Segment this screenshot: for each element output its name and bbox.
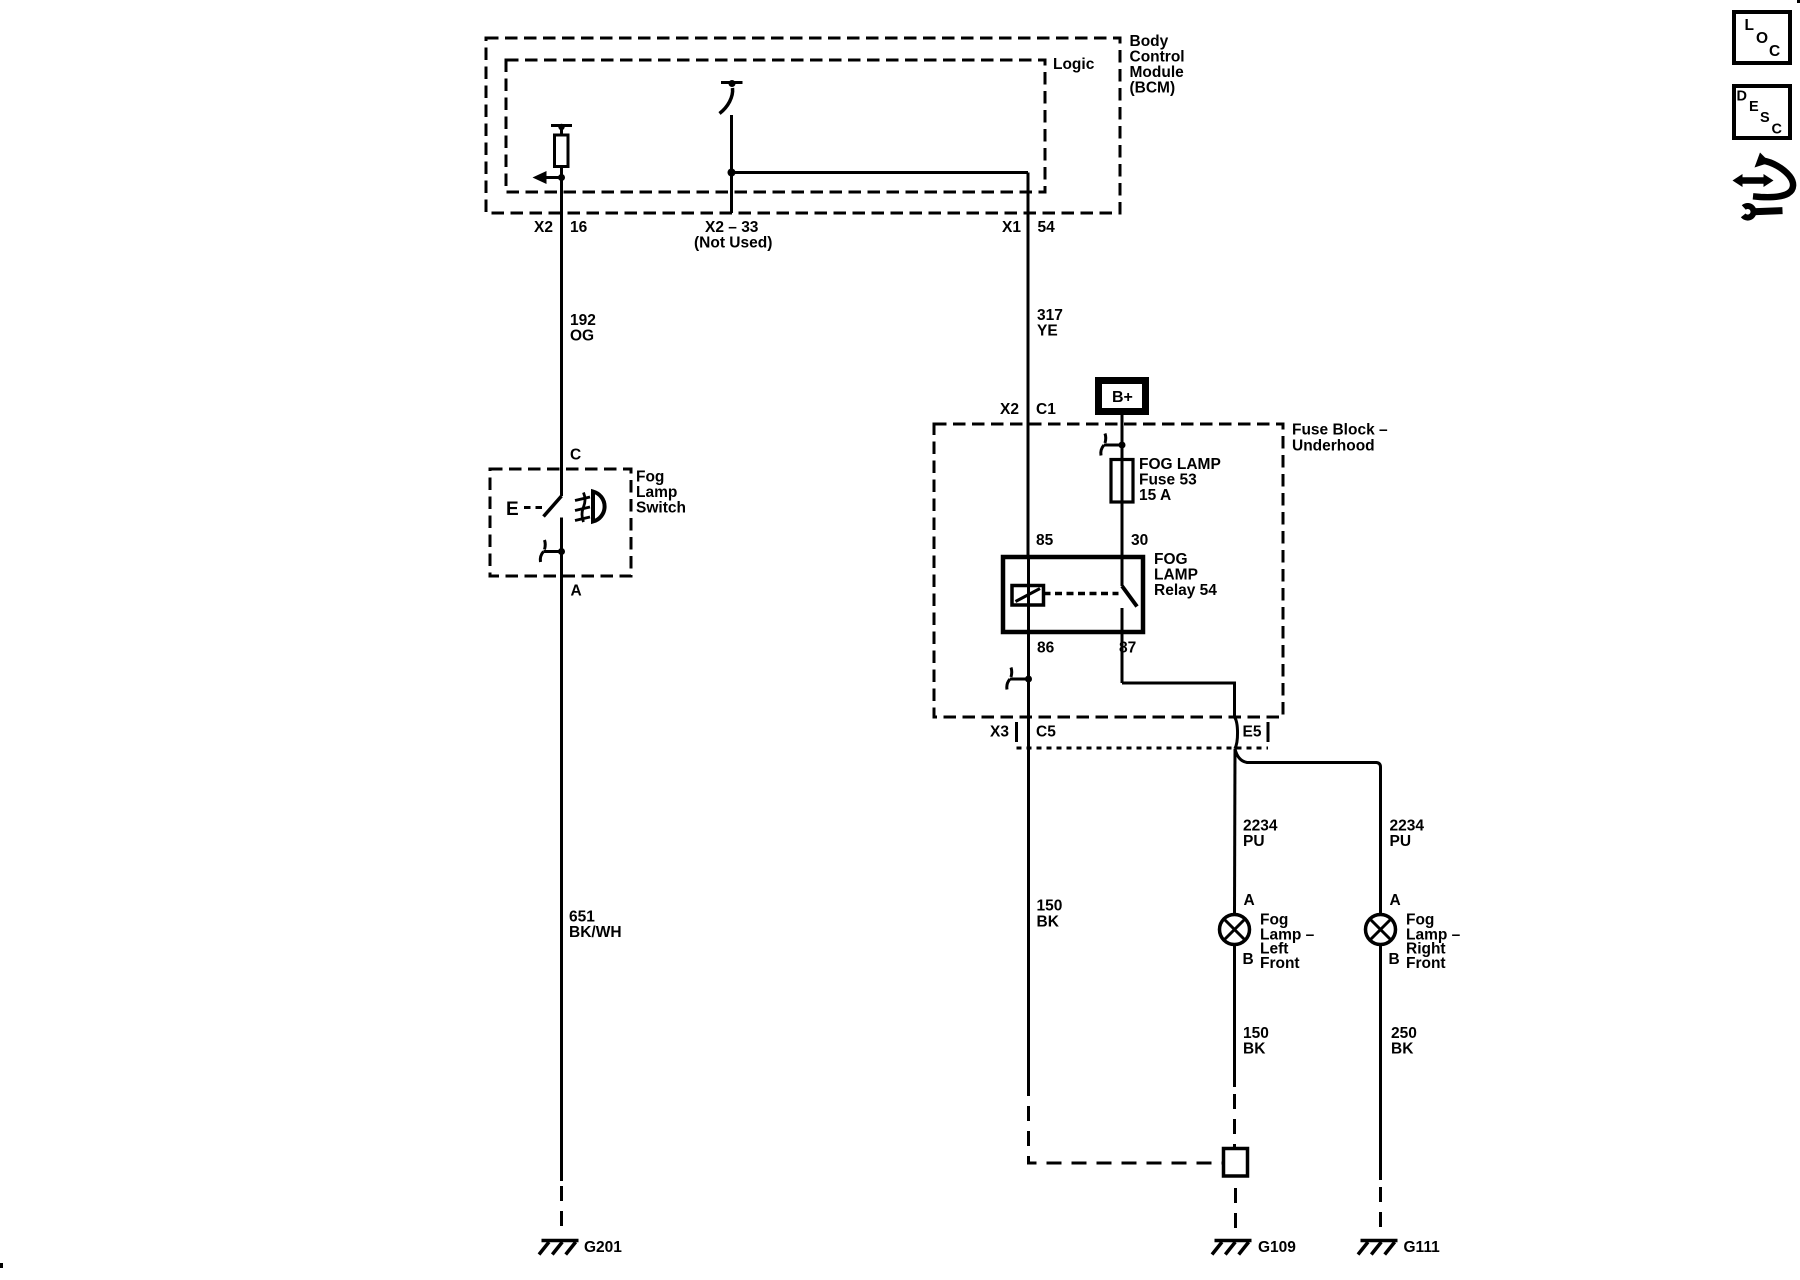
svg-text:E5: E5 <box>1243 724 1262 741</box>
ground G111 <box>1358 1241 1398 1255</box>
svg-text:Switch: Switch <box>636 500 686 517</box>
svg-text:87: 87 <box>1119 640 1136 657</box>
connector row X3 C5 E5 <box>1017 722 1269 748</box>
relay coil K1 <box>1012 586 1044 606</box>
pin label B (left lamp) <box>1243 951 1254 968</box>
BCM output driver U1 (resistor symbol with T-bar) <box>551 124 572 167</box>
wire branch to right fog lamp <box>1235 749 1381 913</box>
fog lamp right front E2 <box>1366 915 1396 945</box>
junction dot below relay 86 <box>1025 676 1032 683</box>
switch detent contact E <box>506 499 547 520</box>
svg-text:L: L <box>1745 17 1754 34</box>
svg-text:G201: G201 <box>584 1239 622 1256</box>
wire 192 OG (BCM X2-16 to switch pin C) <box>560 167 563 496</box>
fog lamp switch dashed box <box>490 469 631 576</box>
junction dot at switch output <box>558 548 565 555</box>
wire from X2-33 junction to X1 54 corner <box>732 171 1029 174</box>
svg-text:X1: X1 <box>1002 219 1021 236</box>
label FOG LAMP Fuse 53 15 A <box>1139 456 1221 504</box>
svg-text:15 A: 15 A <box>1139 487 1171 504</box>
svg-text:YE: YE <box>1037 323 1058 340</box>
pin label B (right lamp) <box>1389 951 1400 968</box>
bottom-left speck <box>0 1263 3 1268</box>
relay pin 87 stub <box>1121 608 1124 683</box>
svg-text:54: 54 <box>1038 219 1056 236</box>
LOC icon box <box>1734 12 1790 63</box>
wire 250 BK right lamp down <box>1379 946 1382 1180</box>
svg-text:30: 30 <box>1131 532 1148 549</box>
svg-text:BK: BK <box>1037 914 1060 931</box>
wire pin 87 to E5 <box>1122 683 1235 717</box>
svg-text:150: 150 <box>1243 1025 1269 1042</box>
svg-text:G109: G109 <box>1258 1239 1296 1256</box>
svg-text:Front: Front <box>1406 955 1446 972</box>
connector label X2 C1 <box>1000 401 1056 418</box>
svg-text:16: 16 <box>570 219 588 236</box>
svg-text:BK: BK <box>1243 1041 1266 1058</box>
svg-text:G111: G111 <box>1404 1239 1441 1256</box>
wire label 250 BK <box>1391 1025 1417 1058</box>
svg-text:A: A <box>1390 892 1401 909</box>
svg-text:Fog: Fog <box>636 469 664 486</box>
svg-text:FOG LAMP: FOG LAMP <box>1139 456 1221 473</box>
wire label 317 YE <box>1037 307 1063 340</box>
svg-text:B+: B+ <box>1112 389 1133 406</box>
wire label 2234 PU (left) <box>1243 818 1278 851</box>
pin label A (right lamp) <box>1390 892 1401 909</box>
wire label 2234 PU (right) <box>1390 818 1425 851</box>
DESC icon box <box>1734 86 1790 138</box>
wire B+ to fuse <box>1121 415 1124 460</box>
svg-text:(Not Used): (Not Used) <box>694 235 772 252</box>
wire relay 86 to X3-C5 <box>1027 632 1030 748</box>
svg-text:Fuse Block –: Fuse Block – <box>1292 422 1388 439</box>
pin label C <box>570 447 581 464</box>
svg-text:D: D <box>1737 89 1747 105</box>
svg-text:651: 651 <box>569 909 595 926</box>
svg-text:Relay 54: Relay 54 <box>1154 582 1217 599</box>
svg-text:2234: 2234 <box>1243 818 1278 835</box>
battery feed B+ terminal <box>1099 381 1146 412</box>
driver output arrow <box>533 171 566 184</box>
svg-text:Fuse 53: Fuse 53 <box>1139 472 1197 489</box>
pin label X2 16 <box>534 219 588 236</box>
pin label X1 54 <box>1002 219 1055 236</box>
junction X2-33 to X1 54 <box>728 169 736 177</box>
label FOG LAMP Relay 54 <box>1154 551 1217 599</box>
fuse block underhood dashed box <box>934 424 1283 717</box>
label Fog Lamp - Left Front <box>1260 912 1315 973</box>
wire label 150 BK (X3-C5) <box>1037 898 1063 931</box>
wire jog through connector E5 <box>1235 717 1238 749</box>
label Body Control Module (BCM) <box>1130 33 1185 96</box>
fuse FOG LAMP Fuse 53 15A <box>1111 460 1133 503</box>
svg-text:LAMP: LAMP <box>1154 567 1198 584</box>
svg-text:86: 86 <box>1037 640 1055 657</box>
svg-text:C: C <box>570 447 581 464</box>
svg-text:C: C <box>1772 122 1783 138</box>
Logic inner dashed box <box>506 60 1045 192</box>
dashed wire X3-C5 to splice <box>1029 1096 1224 1163</box>
wire 651 BK/WH (switch pin A to G201) <box>560 518 563 1182</box>
wire 317 YE (X1-54 to fuse block X2-C1) <box>1027 173 1030 558</box>
svg-text:250: 250 <box>1391 1025 1417 1042</box>
svg-text:Logic: Logic <box>1053 56 1095 73</box>
svg-text:O: O <box>1756 30 1768 47</box>
relay box FOG LAMP Relay 54 <box>1003 557 1143 632</box>
svg-text:S: S <box>1760 110 1770 126</box>
svg-text:A: A <box>571 583 582 600</box>
wire label 150 BK (left lamp) <box>1243 1025 1269 1058</box>
svg-text:Body: Body <box>1130 33 1169 50</box>
label G109 <box>1258 1239 1296 1256</box>
dashed wire right lamp to G111 <box>1379 1187 1382 1227</box>
fog lamp left front E1 <box>1220 915 1250 945</box>
svg-text:150: 150 <box>1037 898 1063 915</box>
hook symbol below relay 86 <box>1007 668 1029 690</box>
svg-text:BK: BK <box>1391 1041 1414 1058</box>
pin label X2-33 (Not Used) <box>694 219 772 252</box>
ground G109 <box>1212 1241 1252 1255</box>
svg-text:A: A <box>1244 892 1255 909</box>
wire left lamp down <box>1233 946 1236 1087</box>
svg-text:Control: Control <box>1130 49 1185 66</box>
wire X2-33 stub <box>730 115 733 213</box>
wire to left fog lamp <box>1233 749 1237 913</box>
svg-text:Module: Module <box>1130 64 1185 81</box>
switch hook symbol <box>540 540 561 562</box>
dashed wire left lamp to splice <box>1233 1094 1236 1149</box>
label Fog Lamp - Right Front <box>1406 912 1461 973</box>
svg-text:X3: X3 <box>990 724 1009 741</box>
wire fuse to relay pin 30 <box>1121 502 1124 586</box>
label G111 <box>1404 1239 1441 1256</box>
svg-text:85: 85 <box>1036 532 1054 549</box>
svg-text:E: E <box>1749 99 1759 115</box>
svg-text:BK/WH: BK/WH <box>569 924 622 941</box>
pin label 85 30 <box>1036 532 1148 549</box>
svg-text:317: 317 <box>1037 307 1063 324</box>
dashed wire to ground G201 <box>560 1186 563 1226</box>
X2-33 not used driver (open switch symbol) <box>720 80 743 114</box>
switch lever S1 <box>544 496 562 517</box>
hook symbol below B+ <box>1101 434 1122 456</box>
wire 150 BK from X3-C5 down <box>1027 748 1030 1096</box>
svg-text:B: B <box>1243 951 1254 968</box>
ground G201 <box>539 1241 579 1255</box>
BCM outer dashed box <box>486 38 1120 213</box>
svg-text:Front: Front <box>1260 955 1300 972</box>
wire label 192 OG <box>570 312 596 345</box>
svg-text:X2 – 33: X2 – 33 <box>705 219 759 236</box>
wire relay 85-86 through coil <box>1027 557 1030 632</box>
label Logic <box>1053 56 1095 73</box>
diagnostic icon: double arrow, curved band, wrench <box>1733 153 1794 218</box>
pin label A <box>571 583 582 600</box>
svg-text:192: 192 <box>570 312 596 329</box>
junction dot below B+ <box>1119 442 1126 449</box>
svg-text:X2: X2 <box>1000 401 1019 418</box>
label Fuse Block - Underhood <box>1292 422 1388 455</box>
dashed wire splice to G109 <box>1234 1188 1237 1229</box>
wire label 651 BK/WH <box>569 909 622 942</box>
svg-text:X2: X2 <box>534 219 553 236</box>
pin label 86 87 <box>1037 640 1136 657</box>
labels X3 C5 E5 <box>990 724 1262 741</box>
relay contact lever <box>1122 586 1137 607</box>
label Fog Lamp Switch <box>636 469 686 517</box>
svg-text:Lamp: Lamp <box>636 484 677 501</box>
label G201 <box>584 1239 622 1256</box>
svg-text:E: E <box>506 499 519 520</box>
svg-text:PU: PU <box>1390 833 1412 850</box>
svg-text:C1: C1 <box>1036 401 1056 418</box>
top-right speck <box>1797 0 1800 3</box>
svg-text:C5: C5 <box>1036 724 1056 741</box>
svg-text:PU: PU <box>1243 833 1265 850</box>
svg-text:2234: 2234 <box>1390 818 1425 835</box>
svg-text:B: B <box>1389 951 1400 968</box>
svg-text:C: C <box>1769 43 1780 60</box>
svg-text:FOG: FOG <box>1154 551 1188 568</box>
splice square S1 <box>1224 1149 1248 1177</box>
svg-text:OG: OG <box>570 328 594 345</box>
pin label A (left lamp) <box>1244 892 1255 909</box>
svg-text:(BCM): (BCM) <box>1130 80 1176 97</box>
fog lamp icon <box>575 492 605 523</box>
relay linkage (dashed) <box>1044 592 1119 596</box>
svg-text:Underhood: Underhood <box>1292 438 1375 455</box>
